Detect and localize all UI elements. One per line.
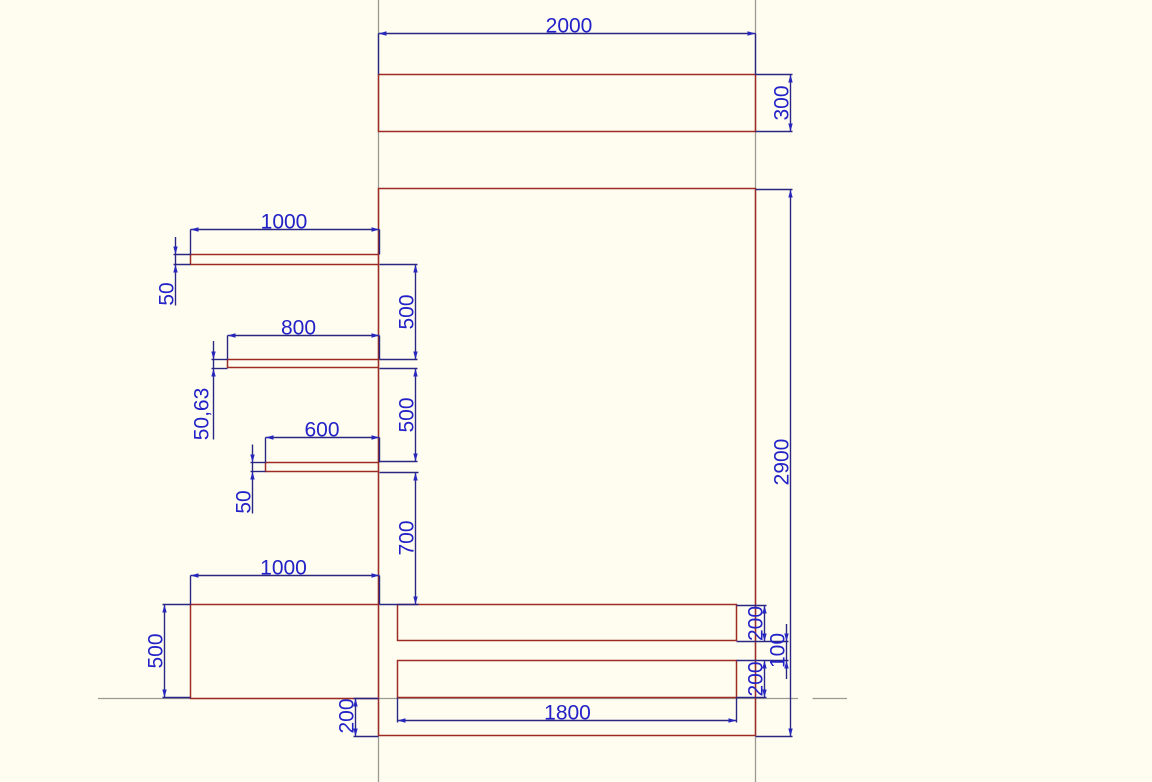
construction line horizontal left part <box>98 698 798 700</box>
construction line horizontal right part <box>813 698 848 700</box>
shelf 1 (1000x50) <box>191 255 379 265</box>
shelf 3 (600x50) <box>266 463 379 472</box>
dim 500 second lines <box>415 369 417 462</box>
header rectangle 2000x300 <box>379 75 756 132</box>
dim 500 first lines <box>415 265 417 360</box>
construction line vertical left <box>378 0 380 782</box>
bottom-left box 1000x500 <box>191 605 379 699</box>
dim 50 shelf1 lines <box>175 237 177 306</box>
dim 1800 arrows <box>398 718 406 722</box>
dim 50,63 lines <box>213 341 215 440</box>
svg-text:2000: 2000 <box>546 14 593 37</box>
dim 600 arrows <box>266 435 274 439</box>
svg-text:100: 100 <box>767 633 790 668</box>
dim 200 bottom lines <box>355 699 357 737</box>
svg-text:1800: 1800 <box>544 701 591 724</box>
svg-text:800: 800 <box>281 316 316 339</box>
svg-text:50: 50 <box>156 282 179 305</box>
dim 300 arrows <box>788 75 792 83</box>
dim 1000 shelf1 arrows <box>191 227 199 231</box>
dim 300 lines <box>790 75 792 132</box>
dim 1000 box lines <box>191 575 380 577</box>
dim 50 shelf1 arrows (outside) <box>173 247 177 255</box>
dim 200 slot1 lines <box>764 606 766 642</box>
dim 800 arrows <box>228 333 236 337</box>
shelf 2 (800x50,63) <box>228 360 379 368</box>
slot 2 (1800x200) <box>398 661 737 698</box>
svg-text:500: 500 <box>396 397 419 432</box>
slot 1 (1800x200) <box>398 605 737 641</box>
main rectangle 2000x2900 <box>379 189 756 736</box>
dim 50 shelf3 arrows (outside) <box>250 455 254 463</box>
dim 1000 box arrows <box>191 573 199 577</box>
svg-text:200: 200 <box>745 661 768 696</box>
dim 700 lines <box>415 473 417 605</box>
svg-text:200: 200 <box>336 698 359 733</box>
dim 1800 lines <box>398 720 737 722</box>
svg-text:200: 200 <box>745 606 768 641</box>
construction line vertical right <box>755 0 757 782</box>
dim 500 first arrows <box>413 265 417 273</box>
svg-text:500: 500 <box>145 633 168 668</box>
svg-text:1000: 1000 <box>260 556 307 579</box>
svg-text:500: 500 <box>396 294 419 329</box>
dim 500 second arrows <box>413 369 417 377</box>
dim 200 slot1 arrows <box>762 606 766 614</box>
svg-text:600: 600 <box>304 418 339 441</box>
svg-text:50: 50 <box>233 490 256 513</box>
dim 100 line <box>786 624 788 679</box>
svg-text:50,63: 50,63 <box>191 388 214 441</box>
dim 50,63 arrows (outside) <box>211 352 215 360</box>
dim 50 shelf3 lines <box>252 445 254 514</box>
dim 2000 arrows <box>379 31 387 35</box>
dim 100 arrows (outside) <box>784 634 788 642</box>
svg-text:700: 700 <box>396 520 419 555</box>
svg-text:2900: 2900 <box>771 439 794 486</box>
dim 2900 arrows <box>788 190 792 198</box>
svg-text:300: 300 <box>771 85 794 120</box>
dim 200 bottom arrows <box>353 699 357 707</box>
svg-text:1000: 1000 <box>261 210 308 233</box>
dim 800 lines <box>228 335 380 337</box>
dim 2000 lines <box>379 33 756 35</box>
dim 200 slot2 lines <box>764 661 766 698</box>
dim 200 slot2 arrows <box>762 661 766 669</box>
dim 2900 lines <box>790 190 792 737</box>
dim 500 box lines <box>164 605 166 698</box>
dim 600 lines <box>266 437 380 439</box>
dim 500 box arrows <box>162 605 166 613</box>
dim 700 arrows <box>413 473 417 481</box>
dim 1000 shelf1 lines <box>191 229 380 231</box>
